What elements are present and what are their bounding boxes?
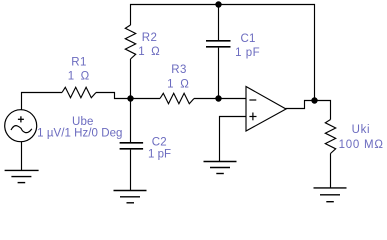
svg-text:R3: R3 [171, 64, 187, 76]
ground G1 (below source) [5, 170, 39, 182]
capacitor C1 [206, 5, 231, 99]
node B junction (R3/C1/op-amp minus) [215, 95, 221, 101]
svg-text:R2: R2 [142, 32, 158, 44]
wire op-amp output to node C [286, 101, 315, 109]
wire R2 bottom to node A [130, 59, 132, 99]
pin minus [249, 99, 256, 101]
node C junction (output) [311, 97, 317, 103]
pin plus [249, 116, 256, 118]
wire node B to op-amp inverting input [219, 98, 247, 100]
svg-text:C1: C1 [240, 33, 255, 45]
wire op-amp non-inverting input to ground [220, 117, 247, 162]
svg-text:1 pF: 1 pF [235, 47, 260, 59]
node A junction (R1/R2/R3/C2) [127, 95, 133, 101]
wire R3 to node B [194, 98, 219, 100]
svg-text:R1: R1 [71, 57, 87, 69]
resistor R2 [125, 25, 135, 59]
wire source bottom to ground [21, 142, 23, 171]
ground G2 (below C2) [114, 191, 147, 203]
svg-text:1 Ω: 1 Ω [167, 79, 189, 91]
svg-text:C2: C2 [152, 136, 167, 148]
resistor Uki [325, 120, 335, 154]
wire top rail from R2 top to output column [131, 5, 315, 101]
wire R1 to node A with step [96, 93, 131, 99]
op-amp U1 [246, 87, 286, 132]
resistor R3 [160, 93, 194, 103]
node top junction (C1 to top rail) [215, 1, 221, 7]
svg-text:1 pF: 1 pF [148, 148, 171, 160]
ground G3 (op-amp + input) [204, 162, 237, 174]
svg-text:Ube: Ube [72, 116, 94, 128]
wire node C to Uki [315, 101, 331, 120]
wire source top to R1 row [22, 93, 63, 110]
voltage source Ube [5, 110, 37, 142]
wire Uki to ground [330, 154, 332, 188]
svg-text:1 Ω: 1 Ω [68, 71, 90, 83]
capacitor C2 [120, 99, 144, 191]
svg-text:1 µV/1 Hz/0 Deg: 1 µV/1 Hz/0 Deg [37, 128, 122, 140]
resistor R1 [62, 87, 96, 97]
ground G4 (below Uki) [314, 188, 347, 202]
wire node A to R3 [131, 98, 161, 100]
svg-text:1 Ω: 1 Ω [138, 46, 160, 58]
svg-text:Uki: Uki [352, 124, 370, 136]
svg-text:100 MΩ: 100 MΩ [339, 139, 384, 151]
